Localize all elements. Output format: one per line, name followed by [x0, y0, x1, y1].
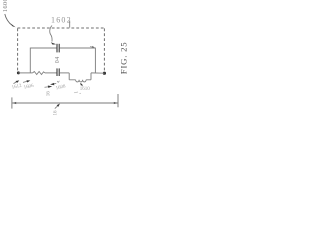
wire right vertical	[94, 48, 96, 73]
label 1614 on dimension line	[55, 105, 59, 109]
notch right rise	[90, 73, 92, 80]
dimension arrowhead left	[12, 102, 16, 104]
dashed box left edge	[17, 28, 19, 70]
wire top rail	[30, 47, 56, 49]
dimension end bar left	[11, 97, 13, 108]
dashed box top edge	[18, 27, 105, 29]
leader arrow from 1600 to dashed box corner	[5, 14, 12, 25]
small arrow and label above dimension line	[45, 86, 50, 89]
svg-text:1602: 1602	[51, 16, 72, 25]
node dot right	[103, 72, 106, 75]
wire capacitor to notch	[60, 72, 70, 74]
dashed box right edge	[103, 28, 105, 71]
dimension arrowhead right	[114, 102, 118, 104]
capacitor C1 (top)	[56, 44, 58, 53]
label 1612 near left dot	[14, 81, 18, 83]
tiny arrow near top-right corner	[90, 46, 93, 49]
node dot left	[17, 71, 20, 74]
notch bottom with coil L2	[69, 80, 91, 82]
wire left vertical	[29, 48, 31, 73]
label 1610 under coil	[81, 85, 82, 87]
label 1608 under capacitor C2	[52, 82, 56, 85]
label 1606 under zigzag	[23, 81, 28, 82]
wire notch to right dot	[91, 72, 104, 74]
inductor L1 zigzag	[33, 72, 45, 75]
svg-text:16: 16	[53, 110, 58, 116]
svg-text:1600: 1600	[2, 0, 9, 12]
leader from 1602 to box edge	[69, 21, 71, 28]
svg-text:16: 16	[47, 91, 52, 97]
leader from 1602 (s-curve) to top capacitor	[50, 26, 52, 42]
capacitor C2 (bottom)	[56, 68, 58, 76]
svg-text:1610: 1610	[80, 87, 91, 92]
wire bottom rail left	[18, 72, 32, 74]
wire zigzag to capacitor	[45, 72, 57, 74]
notch left drop	[68, 73, 70, 80]
faint speck	[74, 92, 81, 94]
dimension line	[12, 102, 118, 104]
svg-text:FIG. 25: FIG. 25	[119, 42, 129, 75]
dimension end bar right	[117, 94, 119, 107]
svg-text:04: 04	[55, 56, 61, 63]
